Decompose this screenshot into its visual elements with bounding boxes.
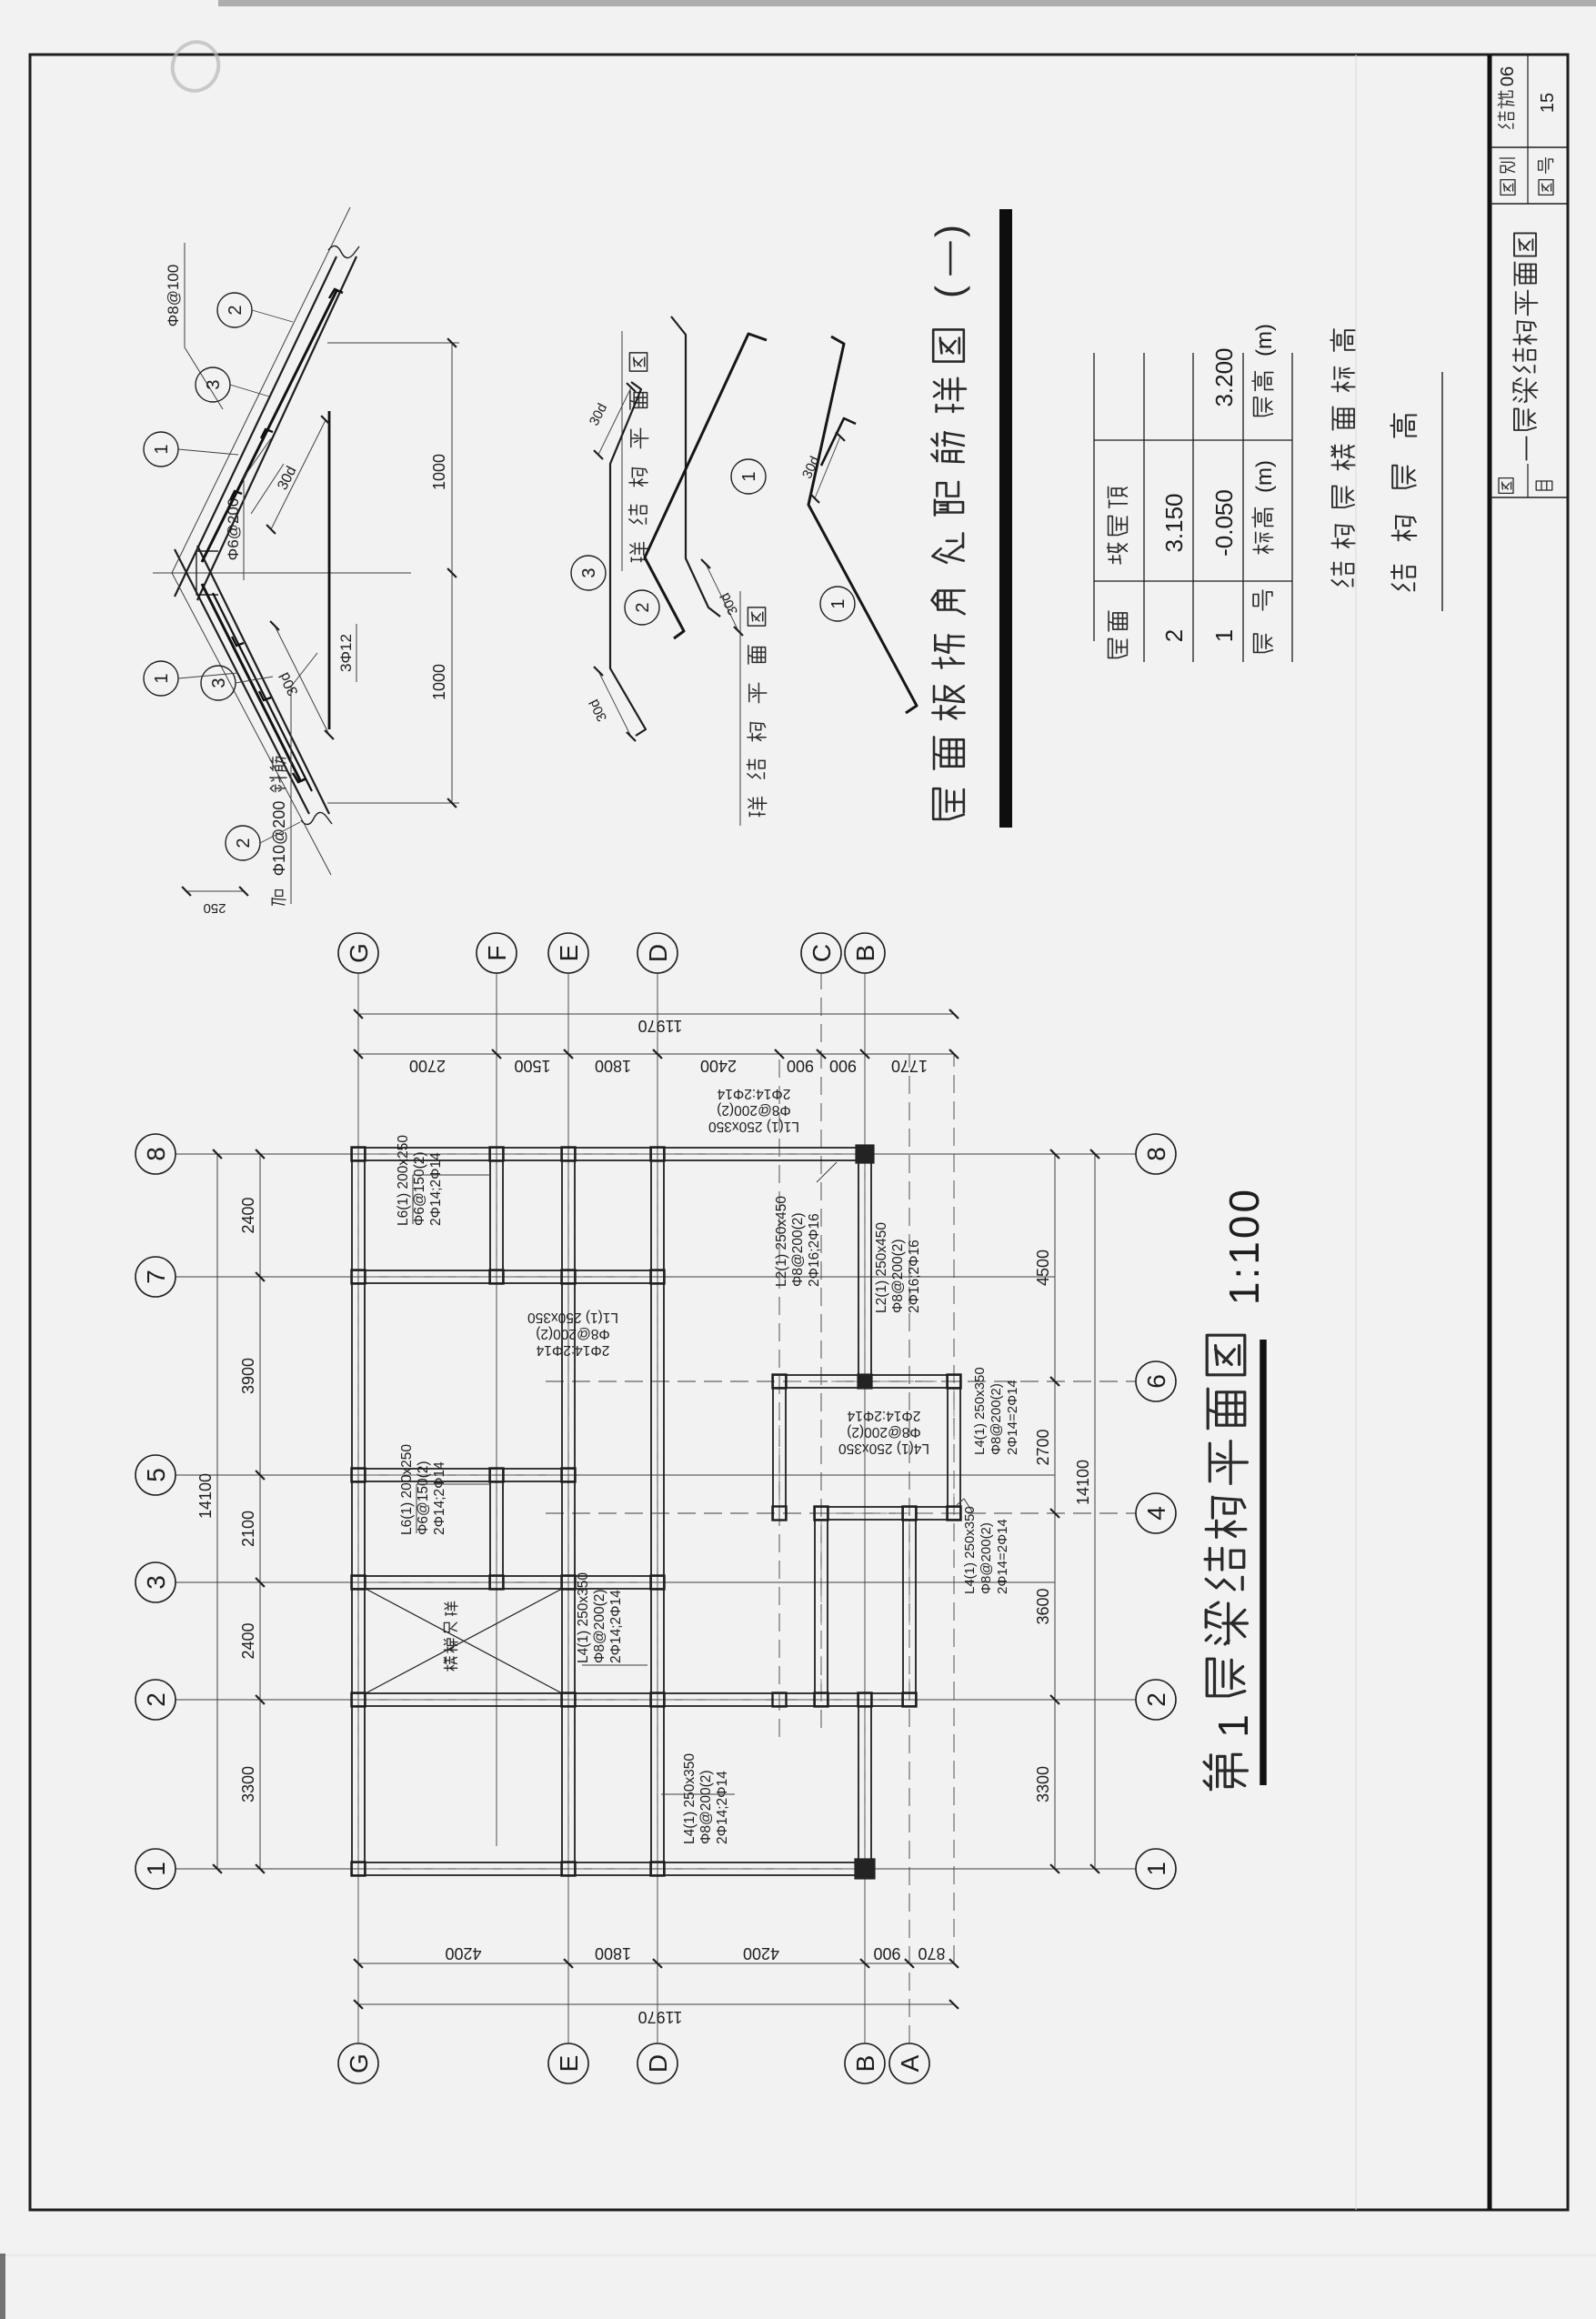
svg-text:Φ8@200(2): Φ8@200(2) [989,1383,1004,1455]
title block divider thick line [1488,55,1492,2210]
axis bubble D right [637,933,678,973]
svg-text:2Φ14;2Φ14: 2Φ14;2Φ14 [715,1771,730,1844]
roof slab right slope [175,256,336,597]
roof surface thin line left [172,573,331,875]
beam axis G [351,1148,353,1875]
svg-text:1: 1 [1210,1714,1257,1738]
svg-text:L2(1) 250x450: L2(1) 250x450 [874,1222,889,1313]
beam axis B seg 1-2 [858,1693,859,1875]
axis bubble 2 top [136,1680,176,1720]
column F/5 [490,1469,504,1482]
note see structural plan (right) [630,543,648,562]
svg-text:1: 1 [828,598,848,608]
svg-text:2Φ14;2Φ14: 2Φ14;2Φ14 [428,1152,444,1226]
column D/7 [651,1270,665,1284]
section leader circle 2 [226,826,260,860]
bent bar label circle 1 [731,459,766,494]
title block cell lines [1490,203,1568,205]
beam axis 6 [773,1387,960,1389]
svg-text:11970: 11970 [638,2008,683,2026]
svg-text:2Φ14=2Φ14: 2Φ14=2Φ14 [1005,1380,1020,1455]
axis bubble 3 top [136,1562,176,1602]
note structural floor elevation [1331,563,1354,587]
stair note 楼梯另详 [444,1657,457,1671]
svg-text:2: 2 [142,1692,170,1707]
svg-text:Φ8@200(2): Φ8@200(2) [890,1239,906,1313]
section leader circle 2 [217,293,252,327]
faint page-edge line left of frame [0,2254,1596,2256]
column G/8 [352,1148,366,1161]
svg-text:1: 1 [1210,629,1238,642]
svg-text:8: 8 [1142,1147,1170,1161]
ridge joint box [196,551,218,595]
beam lower edge seg 4-6 [947,1375,949,1521]
column B/1 (filled) [855,1859,875,1879]
axis bubble C right [801,933,841,973]
axis bubble 8 top [136,1134,176,1174]
svg-text:2700: 2700 [1034,1429,1052,1465]
svg-text:2: 2 [226,305,246,315]
axis bubble B right [845,933,885,973]
axis bubble E left [548,2043,588,2083]
svg-text:(m): (m) [1252,460,1277,493]
svg-text:900: 900 [829,1057,857,1075]
beam axis 4 [815,1519,960,1521]
svg-text:6: 6 [1142,1374,1170,1389]
axis bubble E right [548,933,588,973]
plan title 第1层梁结构平面图 1:100 [1204,1754,1247,1790]
svg-text:C: C [808,944,836,962]
svg-text:900: 900 [787,1057,814,1075]
svg-text:Φ6@150(2): Φ6@150(2) [412,1151,427,1226]
svg-text:A: A [896,2054,924,2072]
note see structural plan (left) [748,798,767,817]
svg-text:3600: 3600 [1034,1588,1052,1624]
title block values 结施06 / 15 [1498,112,1513,128]
column G/5 [352,1469,366,1482]
beam axis 3 [352,1588,664,1590]
svg-text:2: 2 [633,602,653,612]
section leader circle 1 [144,432,178,467]
svg-text:900: 900 [873,1944,900,1963]
svg-text:B: B [851,2055,879,2073]
svg-text:4200: 4200 [743,1944,779,1963]
floating hooked bar end with 30d [821,418,856,466]
section leader circle 1 [144,661,178,696]
plan title underline bar [1260,1340,1267,1785]
beam axis 1 [352,1874,871,1876]
bottom segment dim line [1054,1154,1056,1869]
axis bubble G right [338,933,378,973]
svg-text:1: 1 [1142,1862,1170,1876]
svg-text:2Φ14:2Φ14: 2Φ14:2Φ14 [717,1086,790,1101]
svg-text:L6(1) 200x250: L6(1) 200x250 [396,1135,411,1226]
bent bar label circle 1 [820,587,855,621]
svg-text:3: 3 [204,379,224,389]
column D/8 [651,1148,665,1161]
bent bar 1b (chevron) [808,336,917,713]
column B/6 (filled) [858,1374,872,1389]
svg-text:7: 7 [142,1270,170,1284]
scan edge smudge top-left corner [0,2254,5,2319]
axis bubble G left [338,2043,378,2083]
slab rebar right [202,291,336,562]
svg-text:Φ8@200(2): Φ8@200(2) [592,1589,607,1663]
svg-text:3300: 3300 [1034,1766,1052,1802]
axis bubble 5 top [136,1455,176,1495]
axis bubble 8 bottom [1136,1134,1176,1174]
svg-text:L6(1) 200x250: L6(1) 200x250 [399,1444,415,1535]
svg-text:2100: 2100 [239,1511,257,1547]
svg-text:250: 250 [203,900,226,916]
elevation table lines [1093,353,1095,641]
svg-text:2400: 2400 [239,1197,257,1233]
30d dim right slope [271,420,326,529]
svg-text:3Φ12: 3Φ12 [337,634,355,672]
beam axis 8 [352,1159,871,1161]
column edge/6 [948,1375,961,1389]
column C/2 [815,1693,828,1707]
beam axis D [650,1148,652,1875]
bent bar label circle 2 [625,590,659,625]
svg-text:Φ8@100: Φ8@100 [165,265,182,327]
column E/8 [562,1148,576,1161]
section leader lines [252,310,293,322]
top overall dim line 14100 [216,1154,218,1869]
svg-text:2400: 2400 [700,1057,737,1075]
axis bubble 1 top [136,1849,176,1889]
svg-text:3: 3 [209,678,229,688]
svg-text:Φ8@200(2): Φ8@200(2) [717,1102,791,1118]
svg-text:2Φ14:2Φ14: 2Φ14:2Φ14 [536,1342,609,1358]
column E/1 [562,1862,576,1876]
svg-text:14100: 14100 [196,1473,215,1519]
svg-text:2400: 2400 [239,1622,257,1659]
svg-text:1800: 1800 [595,1057,631,1075]
svg-text:L1(1) 250x350: L1(1) 250x350 [708,1119,799,1134]
axis bubble A left [889,2043,929,2083]
svg-text:2: 2 [1160,629,1188,642]
column F/8 [490,1148,504,1161]
30d dim left slope [275,626,329,735]
added diagonal bar left [213,593,312,791]
30d dim bar3 right [598,387,631,455]
column D/2 [651,1693,665,1707]
svg-text:1000: 1000 [430,664,448,700]
bent bar 3 (plateau) [610,382,646,736]
svg-text:1: 1 [152,673,172,683]
top segment dim line [259,1154,261,1869]
30d dim bar3 left [598,671,631,737]
column E/3 [562,1576,576,1590]
svg-text:(: ( [928,286,970,298]
svg-text:870: 870 [918,1944,945,1963]
beam axis B seg 6-8 [858,1148,859,1388]
axis bubble 4 bottom [1136,1493,1176,1533]
column C/4 [815,1507,828,1521]
roof surface thin line right [172,207,350,573]
svg-text:5: 5 [142,1468,170,1482]
beam axis F seg 7-8 [489,1148,491,1283]
svg-text:L4(1) 250x350: L4(1) 250x350 [682,1753,698,1844]
axis bubble F right [477,933,517,973]
beam axis E [561,1148,563,1875]
svg-text:E: E [555,2055,583,2073]
svg-text:L4(1) 250x350: L4(1) 250x350 [962,1506,978,1594]
svg-text:1000: 1000 [430,454,448,490]
column X/2 [773,1693,787,1707]
column G/1 [352,1862,366,1876]
dim 250 at left break [186,890,244,892]
beam axis 5 [352,1481,575,1482]
svg-text:Φ8@200(2): Φ8@200(2) [536,1326,610,1341]
svg-text:G: G [345,2053,373,2073]
number axis centerlines [176,1868,1136,1870]
label add phi10@200 diagonal bars [272,890,286,906]
axis bubble 2 bottom [1136,1680,1176,1720]
svg-text:4200: 4200 [445,1944,481,1963]
column A/4 [903,1507,917,1521]
svg-text:1: 1 [152,444,172,454]
dim 1000+1000 under ridge detail [327,802,459,804]
svg-text:8: 8 [142,1147,170,1161]
column X/6 [773,1375,787,1389]
right overall dim line 11970 [358,1013,954,1015]
left segment dim line [358,1963,954,1964]
ridge centerline [153,572,411,574]
svg-text:L1(1) 250x350: L1(1) 250x350 [527,1310,618,1325]
title block label 图目 [1499,478,1513,494]
beam axis X seg 4-6 [772,1375,774,1521]
svg-text:2Φ14=2Φ14: 2Φ14=2Φ14 [995,1519,1010,1594]
svg-text:(m): (m) [1252,324,1277,356]
svg-text:D: D [644,944,672,962]
svg-text:2: 2 [1142,1692,1170,1707]
svg-text:3.150: 3.150 [1160,493,1188,552]
column E/7 [562,1270,576,1284]
beam axis C seg 2-4 [814,1508,816,1706]
rebar hooks along slopes [259,691,271,700]
column G/2 [352,1693,366,1707]
column G/7 [352,1270,366,1284]
axis bubble 1 bottom [1136,1849,1176,1889]
svg-text:D: D [644,2054,672,2073]
svg-text:L2(1) 250x450: L2(1) 250x450 [774,1196,789,1287]
svg-text:1500: 1500 [514,1057,550,1075]
stain ring near top-right [166,35,225,97]
svg-text:1:100: 1:100 [1220,1187,1268,1305]
30d dim bar2 left [706,564,738,631]
svg-text:1800: 1800 [595,1944,631,1963]
svg-text:Φ8@200(2): Φ8@200(2) [847,1424,921,1440]
scanner streak line [1355,55,1357,2210]
detail title 屋面板折角处配筋详图(一) [933,788,964,819]
axis bubble 6 bottom [1136,1361,1176,1401]
column edge/4 [948,1507,961,1521]
table header row [1254,634,1273,652]
note structural storey height [1391,566,1415,591]
section leader circle 3 [196,367,230,402]
svg-text:B: B [851,945,879,962]
svg-text:3: 3 [579,567,599,577]
svg-text:-0.050: -0.050 [1210,489,1238,557]
column B/2 [858,1693,872,1707]
stair well cross [366,1589,562,1693]
svg-text:1: 1 [142,1862,170,1876]
break symbol left slope [301,812,332,824]
svg-text:F: F [483,945,511,960]
svg-text:2700: 2700 [409,1057,446,1075]
beam axis A seg 2-4 [902,1508,904,1706]
svg-text:L4(1) 250x350: L4(1) 250x350 [972,1367,988,1455]
bottom overall dim line 14100 [1094,1154,1096,1869]
svg-text:2Φ16;2Φ16: 2Φ16;2Φ16 [807,1213,822,1287]
svg-text:3900: 3900 [239,1358,257,1394]
svg-text:Φ8@200(2): Φ8@200(2) [790,1212,806,1287]
scan edge smear right [218,0,1596,6]
column D/3 [651,1576,665,1590]
svg-text:2Φ16;2Φ16: 2Φ16;2Φ16 [907,1240,922,1313]
column E/2 [562,1693,576,1707]
column E/5 [562,1469,576,1482]
bent bar label circle 3 [571,556,606,590]
bent bar 1a (chevron right slope) [645,334,767,638]
svg-text:L4(1) 250x350: L4(1) 250x350 [576,1572,591,1663]
bent bar 2 (plateau) [671,316,720,617]
svg-text:11970: 11970 [638,1017,683,1035]
svg-text:2Φ14:2Φ14: 2Φ14:2Φ14 [847,1408,920,1423]
column G/3 [352,1576,366,1590]
axis bubble 7 top [136,1257,176,1297]
svg-text:15: 15 [1538,93,1558,113]
svg-text:Φ10@200: Φ10@200 [270,801,288,877]
svg-text:): ) [928,225,970,237]
svg-text:06: 06 [1498,66,1518,86]
svg-text:Φ6@150(2): Φ6@150(2) [416,1461,431,1535]
column F/7 [490,1270,504,1284]
slab rebar left [202,584,300,780]
letter axis centerlines [357,973,359,2043]
break symbol right slope [328,246,359,257]
svg-text:L4(1) 250x350: L4(1) 250x350 [838,1441,929,1456]
svg-text:3: 3 [142,1575,170,1590]
right segment dim line [358,1053,954,1055]
axis bubble B left [845,2043,885,2083]
svg-text:E: E [555,945,583,962]
section leader circle 3 [201,666,236,700]
column F/3 [490,1576,504,1590]
svg-text:3.200: 3.200 [1210,347,1238,407]
svg-text:1: 1 [739,471,759,481]
underline [1441,372,1443,611]
beam axis F seg 3-5 [489,1468,491,1589]
axis bubble D left [637,2043,678,2083]
beam axis 7 [352,1282,664,1284]
column X/4 [773,1507,787,1521]
column B/8 (filled) [856,1145,874,1163]
column A/2 [903,1693,917,1707]
svg-text:Φ8@200(2): Φ8@200(2) [698,1770,714,1844]
svg-text:4: 4 [1142,1506,1170,1521]
svg-text:2Φ14;2Φ14: 2Φ14;2Φ14 [608,1590,624,1663]
table row roof [1109,639,1128,658]
svg-text:2Φ14;2Φ14: 2Φ14;2Φ14 [432,1461,447,1535]
detail title thick underline [999,209,1012,828]
title block labels 图别/图号 [1501,180,1515,196]
title block drawing title 一层梁结构平面图 [1526,437,1528,459]
svg-text:Φ8@200(2): Φ8@200(2) [979,1522,994,1594]
svg-text:3300: 3300 [239,1766,257,1802]
beam axis 2 [352,1705,916,1707]
left overall dim line 11970 [358,2003,954,2005]
svg-text:4500: 4500 [1034,1250,1052,1286]
svg-text:Φ6@200: Φ6@200 [225,498,242,561]
roof slab left slope [175,549,309,814]
column D/1 [651,1862,665,1876]
svg-text:G: G [345,943,373,963]
svg-text:14100: 14100 [1074,1460,1092,1505]
svg-text:1770: 1770 [891,1057,928,1075]
tie bar 3phi12 [328,411,331,729]
svg-text:2: 2 [234,838,254,848]
